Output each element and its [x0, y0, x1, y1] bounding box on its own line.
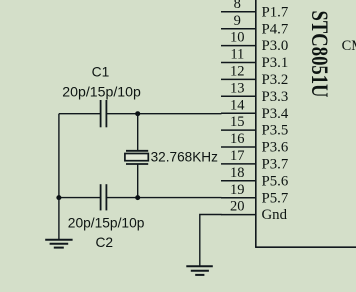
svg-text:12: 12 [230, 64, 245, 80]
svg-text:P1.7: P1.7 [262, 4, 289, 20]
svg-text:P5.7: P5.7 [262, 190, 289, 206]
svg-text:17: 17 [230, 148, 245, 164]
svg-text:P3.4: P3.4 [262, 106, 289, 122]
svg-text:P3.0: P3.0 [262, 38, 289, 54]
pin 11 P3.1 [221, 47, 288, 72]
svg-text:32.768KHz: 32.768KHz [151, 150, 219, 165]
IC U1 STC8051U bottom edge [255, 246, 356, 248]
pin 15 P3.5 [221, 114, 288, 139]
IC U1 STC8051U left edge [255, 0, 257, 247]
wire C1 to XTAL1 node [106, 113, 137, 115]
svg-text:10: 10 [230, 30, 245, 46]
svg-text:P3.6: P3.6 [262, 140, 289, 156]
capacitor C2 [101, 184, 107, 210]
svg-text:P3.2: P3.2 [262, 72, 289, 88]
svg-text:19: 19 [230, 182, 245, 198]
wire left rail to C1 [59, 113, 101, 115]
svg-text:P3.1: P3.1 [262, 55, 289, 71]
svg-text:C2: C2 [95, 235, 113, 250]
pin 9 P4.7 [221, 13, 288, 38]
ground (pin 20) [186, 266, 213, 275]
svg-text:P3.7: P3.7 [262, 157, 289, 173]
svg-text:P3.5: P3.5 [262, 123, 289, 139]
wire pin 20 to ground [200, 215, 222, 266]
svg-text:13: 13 [230, 80, 245, 96]
svg-text:9: 9 [234, 13, 241, 29]
capacitor C1 [101, 100, 107, 127]
junction node rail/C2 [56, 195, 61, 200]
wire rail to left ground [58, 198, 60, 240]
svg-text:C1: C1 [92, 64, 110, 79]
pin 17 P3.7 [221, 148, 288, 173]
junction node XTAL2 [135, 195, 140, 200]
pin 20 Gnd [221, 199, 288, 224]
svg-text:P5.6: P5.6 [262, 173, 289, 189]
svg-text:15: 15 [230, 114, 245, 130]
svg-text:14: 14 [230, 97, 245, 113]
wire XTAL1 node to pin 14 [138, 113, 222, 115]
svg-text:20p/15p/10p: 20p/15p/10p [68, 214, 145, 230]
wire XTAL2 node to pin 19 [138, 197, 222, 199]
wire left rail vertical [58, 114, 60, 198]
wire left rail to C2 [59, 197, 101, 199]
crystal X1 [125, 151, 148, 164]
ground (left) [45, 240, 72, 248]
wire crystal bottom to XTAL2 node [137, 164, 139, 198]
svg-text:P4.7: P4.7 [262, 21, 289, 37]
svg-text:18: 18 [230, 165, 245, 181]
pin 10 P3.0 [221, 30, 288, 55]
svg-text:20p/15p/10p: 20p/15p/10p [62, 83, 141, 99]
svg-text:P3.3: P3.3 [262, 89, 289, 105]
pin 12 P3.2 [221, 64, 288, 89]
svg-text:STC8051U: STC8051U [307, 11, 332, 98]
pin 8 P1.7 [221, 0, 288, 20]
junction node XTAL1 [135, 111, 140, 116]
pin 18 P5.6 [221, 165, 288, 190]
wire XTAL1 node to crystal top [137, 114, 139, 151]
svg-text:8: 8 [234, 0, 241, 12]
svg-text:16: 16 [230, 131, 245, 147]
pin 19 P5.7 [221, 182, 288, 207]
pin 13 P3.3 [221, 80, 288, 105]
svg-text:Gnd: Gnd [262, 207, 288, 223]
svg-text:CM: CM [342, 38, 356, 54]
pin 14 P3.4 [221, 97, 289, 122]
wire C2 to XTAL2 node [106, 197, 137, 199]
pin 16 P3.6 [221, 131, 288, 156]
svg-text:20: 20 [230, 199, 245, 215]
svg-text:11: 11 [230, 47, 244, 63]
